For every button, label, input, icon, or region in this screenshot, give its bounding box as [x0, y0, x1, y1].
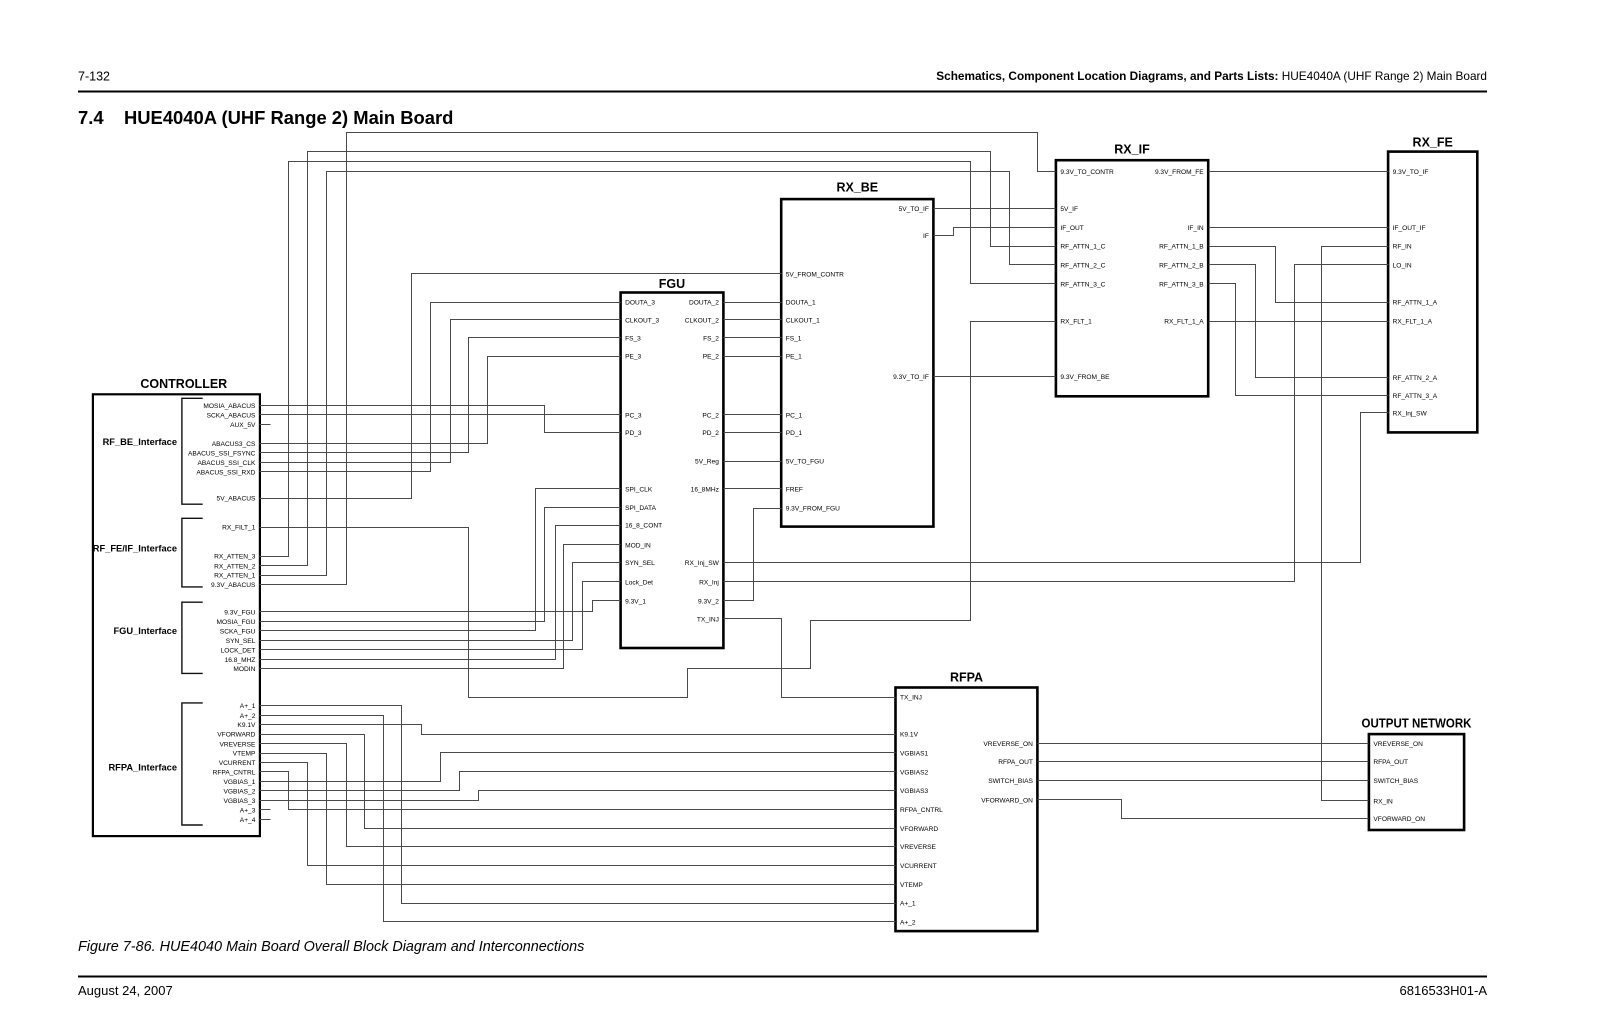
wire SCKA_ABACUS to FGU PC_3: [260, 414, 621, 416]
svg-text:VGBIAS2: VGBIAS2: [900, 769, 929, 776]
bracket RF_BE_Interface group: [182, 398, 203, 504]
svg-text:PD_1: PD_1: [786, 430, 803, 437]
svg-text:MOSIA_ABACUS: MOSIA_ABACUS: [203, 403, 256, 410]
wire RX_FE RF_IN to OUTPUT NETWORK RX_IN: [1322, 247, 1389, 801]
bracket RFPA_Interface group: [182, 703, 203, 825]
svg-text:VGBIAS1: VGBIAS1: [900, 750, 929, 757]
block RX_BE box: [781, 199, 933, 526]
svg-text:RX_BE: RX_BE: [836, 181, 878, 195]
wire RFPA_CNTRL to RFPA RFPA_CNTRL: [260, 772, 896, 810]
svg-text:VTEMP: VTEMP: [900, 882, 923, 889]
wire RFPA VFORWARD_ON to OUTPUT NETWORK VFORWARD_ON: [1038, 800, 1369, 819]
wire RFPA SWITCH_BIAS to OUTPUT NETWORK SWITCH_BIAS: [1038, 780, 1369, 782]
svg-text:RF_ATTN_2_B: RF_ATTN_2_B: [1159, 262, 1204, 269]
svg-text:RX_IN: RX_IN: [1373, 798, 1393, 805]
svg-text:K9.1V: K9.1V: [900, 732, 919, 739]
svg-text:Schematics, Component Location: Schematics, Component Location Diagrams,…: [936, 69, 1487, 83]
svg-text:5V_ABACUS: 5V_ABACUS: [217, 496, 256, 503]
svg-text:RX_FLT_1_A: RX_FLT_1_A: [1393, 319, 1433, 326]
svg-text:VREVERSE_ON: VREVERSE_ON: [1373, 741, 1423, 748]
svg-text:RF_ATTN_3_B: RF_ATTN_3_B: [1159, 281, 1204, 288]
wire RFPA VREVERSE_ON to OUTPUT NETWORK VREVERSE_ON: [1038, 743, 1369, 745]
svg-text:RX_ATTEN_2: RX_ATTEN_2: [214, 563, 256, 570]
svg-text:9.3V_FROM_FGU: 9.3V_FROM_FGU: [786, 506, 840, 513]
svg-text:FS_1: FS_1: [786, 335, 802, 342]
wire RX_IF IF_IN to RX_FE IF_OUT_IF: [1209, 227, 1389, 229]
block FGU box: [621, 293, 724, 649]
block RX_FE box: [1388, 152, 1477, 433]
wire RX_IF RF_ATTN_2_B to RX_FE RF_ATTN_2_A: [1209, 265, 1389, 378]
wire FGU PE_2 to RX_BE PE_1: [724, 356, 782, 358]
svg-text:RFPA_CNTRL: RFPA_CNTRL: [213, 770, 256, 777]
svg-text:RFPA: RFPA: [950, 671, 983, 685]
svg-text:CLKOUT_3: CLKOUT_3: [625, 317, 659, 324]
svg-text:PD_3: PD_3: [625, 430, 642, 437]
svg-text:VFORWARD_ON: VFORWARD_ON: [981, 797, 1033, 804]
wire RX_ATTEN_3 to RX_IF RF_ATTN_3_C: [260, 162, 1056, 557]
svg-text:LOCK_DET: LOCK_DET: [221, 647, 256, 654]
svg-text:IF_OUT: IF_OUT: [1060, 225, 1083, 232]
block OUTPUT NETWORK box: [1369, 734, 1464, 830]
wire RX_ATTEN_2 to RX_IF RF_ATTN_1_C: [260, 152, 1056, 566]
svg-text:HUE4040A (UHF Range 2) Main Bo: HUE4040A (UHF Range 2) Main Board: [124, 107, 453, 128]
svg-text:ABACUS_SSI_FSYNC: ABACUS_SSI_FSYNC: [188, 450, 256, 457]
svg-text:9.3V_TO_IF: 9.3V_TO_IF: [893, 374, 929, 381]
svg-text:A+_1: A+_1: [900, 901, 916, 908]
svg-text:9.3V_FGU: 9.3V_FGU: [224, 610, 255, 617]
wire A+_2 to RFPA A+_2: [260, 716, 896, 922]
svg-text:VCURRENT: VCURRENT: [219, 760, 256, 767]
svg-text:RF_ATTN_2_A: RF_ATTN_2_A: [1393, 375, 1438, 382]
wire ABACUS3_CS to FGU PE_3: [260, 357, 621, 444]
svg-text:VGBIAS_1: VGBIAS_1: [224, 779, 256, 786]
svg-text:RX_IF: RX_IF: [1114, 143, 1150, 157]
svg-text:SPI_CLK: SPI_CLK: [625, 487, 653, 494]
svg-text:5V_TO_IF: 5V_TO_IF: [899, 206, 929, 213]
svg-text:RF_IN: RF_IN: [1393, 244, 1412, 251]
svg-text:VREVERSE_ON: VREVERSE_ON: [983, 741, 1033, 748]
svg-text:VTEMP: VTEMP: [233, 751, 256, 758]
bracket FGU_Interface group: [182, 602, 203, 673]
wire ABACUS_SSI_RXD to FGU DOUTA_3: [260, 303, 621, 472]
wire 16.8_MHZ to FGU 16_8_CONT: [260, 526, 621, 660]
wire RX_BE 5V_TO_IF to RX_IF 5V_IF: [934, 208, 1056, 210]
wire FGU FS_2 to RX_BE FS_1: [724, 337, 782, 339]
svg-text:7.4: 7.4: [78, 107, 104, 128]
svg-text:7-132: 7-132: [78, 70, 110, 84]
svg-text:RX_Inj_SW: RX_Inj_SW: [685, 560, 720, 567]
svg-text:ABACUS_SSI_RXD: ABACUS_SSI_RXD: [196, 469, 255, 476]
svg-text:PE_3: PE_3: [625, 354, 641, 361]
svg-text:RFPA_OUT: RFPA_OUT: [1373, 759, 1408, 766]
svg-text:9.3V_1: 9.3V_1: [625, 598, 646, 605]
svg-text:RFPA_Interface: RFPA_Interface: [108, 763, 177, 773]
svg-text:VFORWARD_ON: VFORWARD_ON: [1373, 816, 1425, 823]
wire ABACUS_SSI_CLK to FGU CLKOUT_3: [260, 320, 621, 463]
svg-text:A+_4: A+_4: [240, 817, 256, 824]
svg-text:RFPA_OUT: RFPA_OUT: [998, 759, 1033, 766]
wire 9.3V_ABACUS to RX_IF 9.3V_TO_CONTR: [260, 133, 1056, 585]
svg-text:16.8_MHZ: 16.8_MHZ: [225, 657, 256, 664]
wire LOCK_DET to FGU Lock_Det: [260, 582, 621, 650]
wire RX_BE 9.3V_TO_IF to RX_IF 9.3V_FROM_BE: [934, 376, 1056, 378]
svg-text:PD_2: PD_2: [702, 430, 719, 437]
svg-text:9.3V_2: 9.3V_2: [698, 598, 719, 605]
wire ABACUS_SSI_FSYNC to FGU FS_3: [260, 338, 621, 453]
svg-text:RX_FILT_1: RX_FILT_1: [222, 525, 256, 532]
svg-text:9.3V_ABACUS: 9.3V_ABACUS: [211, 582, 256, 589]
svg-text:K9.1V: K9.1V: [237, 722, 256, 729]
svg-text:SPI_DATA: SPI_DATA: [625, 505, 657, 512]
svg-text:MODIN: MODIN: [233, 666, 255, 673]
svg-text:VREVERSE: VREVERSE: [219, 741, 256, 748]
svg-text:PE_1: PE_1: [786, 354, 802, 361]
footer rule: [78, 976, 1487, 978]
svg-text:IF_IN: IF_IN: [1188, 225, 1204, 232]
wire 5V_ABACUS to RX_BE 5V_FROM_CONTR: [260, 274, 782, 499]
wire FGU PC_2 to RX_BE PC_1: [724, 414, 782, 416]
svg-text:RX_FLT_1_A: RX_FLT_1_A: [1164, 319, 1204, 326]
svg-text:Figure 7-86. HUE4040 Main Boar: Figure 7-86. HUE4040 Main Board Overall …: [78, 939, 584, 955]
svg-text:FGU_Interface: FGU_Interface: [113, 626, 177, 636]
wire A+_4 stub: [260, 819, 271, 821]
wire MOSIA_FGU to FGU SPI_DATA: [260, 508, 621, 622]
svg-text:PC_2: PC_2: [702, 412, 719, 419]
svg-text:VREVERSE: VREVERSE: [900, 844, 937, 851]
svg-text:RF_ATTN_1_A: RF_ATTN_1_A: [1393, 300, 1438, 307]
svg-text:5V_TO_FGU: 5V_TO_FGU: [786, 459, 825, 466]
wire RX_IF RF_ATTN_1_B to RX_FE RF_ATTN_1_A: [1209, 247, 1389, 303]
svg-text:OUTPUT NETWORK: OUTPUT NETWORK: [1362, 717, 1472, 731]
svg-text:6816533H01-A: 6816533H01-A: [1400, 983, 1488, 998]
svg-text:16_8_CONT: 16_8_CONT: [625, 523, 662, 530]
svg-text:RF_ATTN_3_C: RF_ATTN_3_C: [1060, 281, 1105, 288]
svg-text:TX_INJ: TX_INJ: [697, 616, 719, 623]
wire FGU CLKOUT_2 to RX_BE CLKOUT_1: [724, 319, 782, 321]
wire FGU 5V_Reg to RX_BE 5V_TO_FGU: [724, 461, 782, 463]
wire FGU DOUTA_2 to RX_BE DOUTA_1: [724, 302, 782, 304]
svg-text:DOUTA_2: DOUTA_2: [689, 300, 719, 307]
svg-text:ABACUS_SSI_CLK: ABACUS_SSI_CLK: [197, 460, 256, 467]
wire VTEMP to RFPA VTEMP: [260, 754, 896, 885]
wire RX_IF RX_FLT_1_A to RX_FE RX_FLT_1_A: [1209, 321, 1389, 323]
svg-text:FS_2: FS_2: [703, 335, 719, 342]
svg-text:SWITCH_BIAS: SWITCH_BIAS: [1373, 778, 1418, 785]
svg-text:DOUTA_1: DOUTA_1: [786, 300, 816, 307]
svg-text:VCURRENT: VCURRENT: [900, 863, 937, 870]
svg-text:RF_ATTN_3_A: RF_ATTN_3_A: [1393, 393, 1438, 400]
wire FGU TX_INJ to RFPA TX_INJ: [724, 619, 896, 698]
wire A+_3 stub: [260, 809, 271, 811]
wire FGU 16_8MHz to RX_BE FREF: [724, 488, 782, 490]
wire FGU PD_2 to RX_BE PD_1: [724, 432, 782, 434]
wire SCKA_FGU to FGU SPI_CLK: [260, 489, 621, 631]
svg-text:9.3V_FROM_BE: 9.3V_FROM_BE: [1060, 374, 1110, 381]
wire RFPA RFPA_OUT to OUTPUT NETWORK RFPA_OUT: [1038, 761, 1369, 763]
wire FGU RX_Inj_SW to RX_FE RX_Inj_SW: [724, 413, 1389, 563]
svg-text:AUX_5V: AUX_5V: [230, 422, 256, 429]
svg-text:9.3V_TO_IF: 9.3V_TO_IF: [1393, 169, 1429, 176]
svg-text:SYN_SEL: SYN_SEL: [226, 638, 256, 645]
wire RX_ATTEN_1 to RX_IF RF_ATTN_2_C: [260, 172, 1056, 576]
wire 9.3V_FGU to FGU 9.3V_1: [260, 601, 621, 612]
svg-text:A+_3: A+_3: [240, 807, 256, 814]
svg-text:RFPA_CNTRL: RFPA_CNTRL: [900, 807, 943, 814]
svg-text:RX_Inj: RX_Inj: [699, 579, 719, 586]
wire VGBIAS_2 to RFPA VGBIAS2: [260, 772, 896, 791]
svg-text:SWITCH_BIAS: SWITCH_BIAS: [988, 778, 1033, 785]
svg-text:RF_FE/IF_Interface: RF_FE/IF_Interface: [93, 544, 177, 554]
svg-text:PC_3: PC_3: [625, 412, 642, 419]
svg-text:SCKA_FGU: SCKA_FGU: [220, 628, 256, 635]
svg-text:CLKOUT_2: CLKOUT_2: [685, 317, 719, 324]
svg-text:RF_BE_Interface: RF_BE_Interface: [103, 437, 177, 447]
svg-text:RF_ATTN_2_C: RF_ATTN_2_C: [1060, 262, 1105, 269]
wire FGU RX_Inj to RX_FE LO_IN: [724, 265, 1389, 582]
svg-text:ABACUS3_CS: ABACUS3_CS: [212, 441, 256, 448]
wire VGBIAS_1 to RFPA VGBIAS1: [260, 753, 896, 782]
block RFPA box: [896, 688, 1038, 932]
svg-text:TX_INJ: TX_INJ: [900, 695, 922, 702]
svg-text:RX_FLT_1: RX_FLT_1: [1060, 319, 1092, 326]
wire FGU 9.3V_2 to RX_BE 9.3V_FROM_FGU: [724, 509, 782, 601]
svg-text:RX_ATTEN_1: RX_ATTEN_1: [214, 573, 256, 580]
wire RX_IF RF_ATTN_3_B to RX_FE RF_ATTN_3_A: [1209, 284, 1389, 396]
wire RX_IF 9.3V_FROM_FE to RX_FE 9.3V_TO_IF: [1209, 171, 1389, 173]
svg-text:VGBIAS_2: VGBIAS_2: [224, 788, 256, 795]
svg-text:MOD_IN: MOD_IN: [625, 543, 651, 550]
wire VGBIAS_3 to RFPA VGBIAS3: [260, 791, 896, 801]
svg-text:August 24, 2007: August 24, 2007: [78, 983, 173, 998]
header rule: [78, 91, 1487, 93]
svg-text:DOUTA_3: DOUTA_3: [625, 300, 655, 307]
svg-text:9.3V_FROM_FE: 9.3V_FROM_FE: [1155, 169, 1204, 176]
svg-text:VGBIAS_3: VGBIAS_3: [224, 798, 256, 805]
bracket RF_FE/IF_Interface group: [182, 518, 203, 587]
svg-text:IF: IF: [923, 233, 929, 240]
svg-text:VFORWARD: VFORWARD: [217, 732, 255, 739]
wire AUX_5V stub: [260, 424, 271, 426]
wire K9.1V to RFPA K9.1V: [260, 725, 896, 735]
svg-text:A+_2: A+_2: [900, 919, 916, 926]
svg-text:CONTROLLER: CONTROLLER: [140, 377, 227, 391]
svg-text:SYN_SEL: SYN_SEL: [625, 560, 655, 567]
svg-text:PE_2: PE_2: [703, 354, 719, 361]
svg-text:FGU: FGU: [659, 277, 685, 291]
svg-text:A+_2: A+_2: [240, 713, 256, 720]
svg-text:IF_OUT_IF: IF_OUT_IF: [1393, 225, 1426, 232]
svg-text:RX_FE: RX_FE: [1413, 136, 1453, 150]
svg-text:5V_FROM_CONTR: 5V_FROM_CONTR: [786, 272, 844, 279]
wire RX_FILT_1 to RX_IF RX_FLT_1: [260, 322, 1056, 698]
wire VFORWARD to RFPA VFORWARD: [260, 735, 896, 829]
svg-text:VGBIAS3: VGBIAS3: [900, 788, 929, 795]
wire VREVERSE to RFPA VREVERSE: [260, 744, 896, 847]
wire VCURRENT to RFPA VCURRENT: [260, 763, 896, 866]
wire MODIN to FGU MOD_IN: [260, 545, 621, 669]
svg-text:RF_ATTN_1_B: RF_ATTN_1_B: [1159, 244, 1204, 251]
svg-text:9.3V_TO_CONTR: 9.3V_TO_CONTR: [1060, 169, 1114, 176]
wire MOSIA_ABACUS to FGU PD_3: [260, 406, 621, 433]
svg-text:SCKA_ABACUS: SCKA_ABACUS: [207, 412, 256, 419]
svg-text:MOSIA_FGU: MOSIA_FGU: [217, 619, 256, 626]
svg-text:LO_IN: LO_IN: [1393, 262, 1412, 269]
svg-text:VFORWARD: VFORWARD: [900, 826, 938, 833]
svg-text:RF_ATTN_1_C: RF_ATTN_1_C: [1060, 244, 1105, 251]
svg-text:5V_Reg: 5V_Reg: [695, 459, 719, 466]
block CONTROLLER box: [93, 394, 260, 836]
svg-text:FREF: FREF: [786, 487, 803, 494]
wire RX_BE IF to RX_IF IF_OUT: [934, 228, 1056, 236]
svg-text:FS_3: FS_3: [625, 335, 641, 342]
svg-text:16_8MHz: 16_8MHz: [691, 487, 719, 494]
block RX_IF box: [1056, 160, 1208, 396]
wire A+_1 to RFPA A+_1: [260, 706, 896, 904]
svg-text:A+_1: A+_1: [240, 703, 256, 710]
svg-text:RX_Inj_SW: RX_Inj_SW: [1393, 410, 1428, 417]
wire SYN_SEL to FGU SYN_SEL: [260, 563, 621, 641]
svg-text:5V_IF: 5V_IF: [1060, 206, 1078, 213]
svg-text:PC_1: PC_1: [786, 412, 803, 419]
svg-text:Lock_Det: Lock_Det: [625, 579, 653, 586]
svg-text:CLKOUT_1: CLKOUT_1: [786, 317, 820, 324]
svg-text:RX_ATTEN_3: RX_ATTEN_3: [214, 554, 256, 561]
